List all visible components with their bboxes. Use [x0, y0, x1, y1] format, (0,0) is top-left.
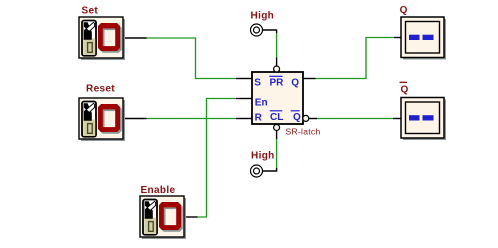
wire Q output	[303, 38, 401, 79]
svg-text:High: High	[251, 10, 275, 21]
SR latch U1 body	[252, 72, 303, 124]
input switch Reset	[79, 98, 125, 141]
SR latch pin label CL with overline	[270, 111, 284, 123]
svg-text:Reset: Reset	[86, 84, 115, 95]
svg-text:En: En	[255, 98, 268, 109]
wire High top to PR	[263, 30, 277, 66]
svg-text:Set: Set	[82, 6, 99, 17]
svg-text:Q: Q	[291, 78, 299, 89]
svg-text:PR: PR	[270, 78, 285, 89]
SR latch pin label notQ bottom	[291, 111, 301, 123]
wire Reset to R	[123, 118, 252, 120]
output display Q	[401, 17, 446, 60]
wire Set to S	[123, 38, 252, 79]
SR latch CL bubble	[274, 125, 280, 131]
svg-text:SR-latch: SR-latch	[286, 127, 321, 137]
svg-text:Q: Q	[400, 5, 408, 16]
input switch Set	[79, 17, 125, 60]
svg-text:CL: CL	[270, 112, 283, 123]
svg-text:High: High	[251, 151, 275, 162]
constant High bottom	[251, 165, 263, 177]
SR latch notQ bubble	[303, 115, 309, 121]
SR latch pin label PR with overline	[269, 76, 284, 88]
constant High top	[251, 24, 263, 36]
svg-text:R: R	[255, 112, 263, 123]
svg-text:Enable: Enable	[141, 185, 176, 196]
svg-text:Q: Q	[401, 85, 409, 96]
label notQ with overline	[400, 82, 409, 95]
wire Enable to En	[184, 99, 252, 218]
svg-text:Q: Q	[293, 112, 301, 123]
input switch Enable	[140, 196, 186, 239]
output display notQ	[401, 98, 446, 141]
wire High bottom to CL	[263, 131, 277, 171]
svg-text:S: S	[254, 78, 261, 89]
SR latch PR bubble	[274, 66, 280, 72]
wire notQ output	[309, 118, 401, 120]
